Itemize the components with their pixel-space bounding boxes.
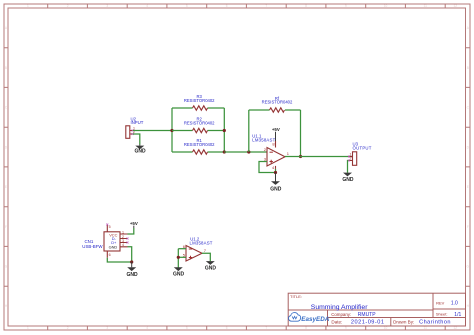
svg-text:GND: GND <box>270 187 282 193</box>
svg-text:7: 7 <box>265 4 267 8</box>
svg-text:9: 9 <box>345 4 347 8</box>
svg-text:USB-BFW: USB-BFW <box>82 244 103 249</box>
svg-text:TITLE:: TITLE: <box>290 294 302 299</box>
svg-text:2021-09-01: 2021-09-01 <box>351 320 385 326</box>
wire U1.2 pin5 <box>178 256 186 258</box>
svg-text:1.0: 1.0 <box>451 301 458 307</box>
connector U3 body <box>348 152 356 166</box>
svg-text:3: 3 <box>106 4 108 8</box>
svg-text:E: E <box>5 185 7 189</box>
ground GND at U3 <box>342 173 354 183</box>
wire pin4 down <box>275 166 277 169</box>
svg-text:INPUT: INPUT <box>131 120 144 125</box>
svg-text:+5V: +5V <box>272 127 280 132</box>
ground GND at USB <box>126 262 138 278</box>
wire U1.2 output to ground <box>202 253 210 261</box>
svg-text:RESISTOR0402: RESISTOR0402 <box>184 98 215 103</box>
connector CN1 USB body <box>104 225 128 258</box>
junction op-amp ground <box>274 171 277 174</box>
wire right rail <box>223 108 225 152</box>
wire feedback left vertical <box>248 110 250 152</box>
svg-text:GND: GND <box>173 272 185 278</box>
wire U1.2 pin6 <box>178 248 186 250</box>
svg-text:F: F <box>467 225 469 229</box>
svg-text:2: 2 <box>350 157 352 161</box>
svg-text:Sheet:: Sheet: <box>436 312 448 317</box>
resistor R1 <box>172 138 224 154</box>
svg-text:3: 3 <box>106 326 108 330</box>
svg-text:LM358AST: LM358AST <box>252 138 275 143</box>
svg-text:6: 6 <box>109 253 111 257</box>
svg-text:11: 11 <box>424 326 428 330</box>
svg-text:1/1: 1/1 <box>454 312 461 318</box>
power +5V at U1.1 pin8 <box>272 127 280 141</box>
wire USB GND pin down <box>128 247 132 262</box>
svg-text:5: 5 <box>186 326 188 330</box>
junction output node <box>299 155 302 158</box>
svg-text:B: B <box>5 66 7 70</box>
title block logo cell divider <box>327 310 329 326</box>
svg-text:EasyEDA: EasyEDA <box>301 316 329 323</box>
svg-text:5: 5 <box>109 225 111 229</box>
frame ticks left <box>4 48 8 287</box>
power +5V at USB <box>130 221 138 228</box>
svg-text:6: 6 <box>226 4 228 8</box>
resistor R2 <box>172 117 224 133</box>
wire input to left rail <box>133 130 172 132</box>
svg-text:10: 10 <box>384 4 388 8</box>
connector U2 pin crosses <box>132 130 134 136</box>
wire VCC to +5V <box>128 228 134 234</box>
EasyEDA logo <box>289 313 330 323</box>
svg-text:2: 2 <box>67 326 69 330</box>
wire input pin2 to ground <box>133 134 140 145</box>
frame zone letters right <box>467 26 470 308</box>
svg-text:OUTPUT: OUTPUT <box>353 145 372 150</box>
svg-text:1: 1 <box>27 326 29 330</box>
frame ticks top <box>48 4 446 8</box>
wire feedback right vertical <box>300 110 302 157</box>
svg-text:Company:: Company: <box>331 312 351 317</box>
svg-text:RESISTOR0402: RESISTOR0402 <box>184 142 215 147</box>
svg-text:Charinthon: Charinthon <box>419 320 451 326</box>
svg-text:E: E <box>467 185 469 189</box>
junction feedback at summing node <box>247 150 250 153</box>
wire pin3 loop to ground net <box>259 162 276 173</box>
svg-text:GND: GND <box>342 177 354 183</box>
wire summing node to op-amp pin2 <box>224 151 267 153</box>
svg-text:GND: GND <box>134 149 146 155</box>
title block row line 1 <box>288 309 433 311</box>
wire pin8 to triangle top <box>275 141 277 148</box>
junction right rail at R2 row <box>223 129 226 132</box>
svg-text:2: 2 <box>67 4 69 8</box>
svg-text:GND: GND <box>126 272 138 278</box>
connector U3 labels <box>353 141 372 150</box>
wire USB shield to ground net <box>107 258 131 262</box>
ground GND at input <box>134 145 146 155</box>
svg-text:7: 7 <box>265 326 267 330</box>
svg-text:1: 1 <box>122 230 124 234</box>
junction left rail at R2 row <box>170 129 173 132</box>
svg-text:RESISTOR0402: RESISTOR0402 <box>184 120 215 125</box>
frame zone numbers top <box>27 4 457 8</box>
title block date cell divider <box>390 318 392 327</box>
ground GND at U1.1 <box>270 173 282 193</box>
svg-text:Summing Amplifier: Summing Amplifier <box>311 304 368 311</box>
svg-text:GND: GND <box>109 244 118 249</box>
junction USB ground <box>130 260 133 263</box>
title block row line 2 <box>328 317 466 319</box>
op-amp U1.2 <box>183 236 213 261</box>
svg-text:10: 10 <box>384 326 388 330</box>
connector U3 pin crosses <box>348 156 350 162</box>
wire U3 pin2 to ground <box>347 161 350 173</box>
ground GND at U1.2 output <box>205 261 217 272</box>
frame zone letters left <box>5 26 8 308</box>
svg-text:GND: GND <box>205 266 217 272</box>
svg-text:RESISTOR0402: RESISTOR0402 <box>262 100 293 105</box>
svg-text:RMUTP: RMUTP <box>358 312 376 318</box>
connector U2 pin numbers <box>133 127 135 135</box>
svg-text:5: 5 <box>186 4 188 8</box>
svg-text:F: F <box>5 225 7 229</box>
svg-text:4: 4 <box>122 243 124 247</box>
resistor R3 <box>172 94 224 110</box>
wire op-amp output <box>285 156 352 158</box>
svg-text:11: 11 <box>424 4 428 8</box>
svg-text:6: 6 <box>226 326 228 330</box>
svg-text:B: B <box>467 66 469 70</box>
svg-text:4: 4 <box>146 326 148 330</box>
svg-text:Drawn By:: Drawn By: <box>393 320 414 325</box>
resistor Rf <box>249 96 301 112</box>
junction right rail at R1 row <box>223 150 226 153</box>
svg-text:9: 9 <box>345 326 347 330</box>
connector U2 body <box>126 126 133 139</box>
svg-text:12: 12 <box>454 326 458 330</box>
connector CN1 labels <box>82 239 103 249</box>
ground GND at U1.2 inputs <box>173 267 185 277</box>
connector CN1 unconnected pin marks <box>106 224 128 244</box>
svg-text:REV: REV <box>436 300 445 305</box>
connector CN1 pin numbers <box>109 225 124 257</box>
wire left rail <box>171 108 173 152</box>
svg-text:1: 1 <box>27 4 29 8</box>
frame ticks bottom <box>48 326 446 330</box>
title block outline <box>288 293 465 326</box>
svg-text:LM358AST: LM358AST <box>190 240 213 245</box>
connector U2 labels <box>131 116 144 125</box>
title block rev column divider <box>432 293 434 317</box>
svg-text:8: 8 <box>305 326 307 330</box>
svg-text:Date:: Date: <box>331 320 342 325</box>
frame zone numbers bottom <box>27 326 457 330</box>
connector U3 pin numbers <box>350 153 352 161</box>
op-amp U1.1 <box>252 134 289 170</box>
junction U1.2 pin5 <box>177 256 180 259</box>
wire U1.2 input rail <box>177 249 179 268</box>
svg-text:8: 8 <box>305 4 307 8</box>
svg-text:+5V: +5V <box>130 221 138 226</box>
svg-text:4: 4 <box>146 4 148 8</box>
frame ticks right <box>466 48 471 287</box>
title block rev row line <box>433 308 466 310</box>
svg-text:12: 12 <box>454 4 458 8</box>
